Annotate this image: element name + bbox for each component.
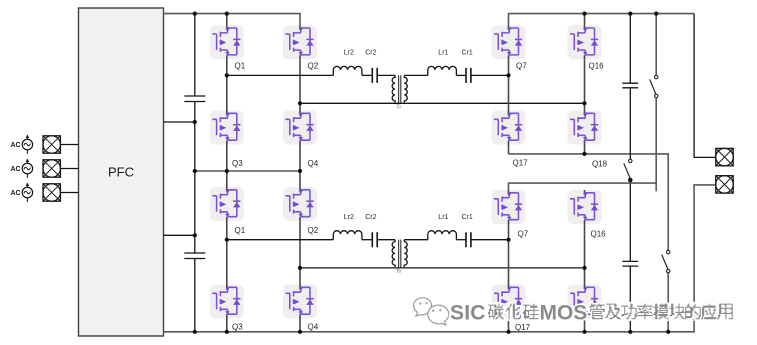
node bottom bus / Q17b (506, 330, 510, 334)
wire Q18b source stub (584, 319, 586, 332)
node Q16 source (582, 101, 586, 105)
wire Cr1 to Q7 node (471, 74, 509, 76)
svg-text:Lr1: Lr1 (438, 214, 448, 221)
transistor Q4 (283, 111, 317, 145)
svg-text:O: O (557, 302, 573, 325)
transistor Q7 (lower) (492, 190, 526, 224)
watermark logo (WeChat) (414, 298, 449, 325)
node wire1 / Q18 (582, 152, 586, 156)
node bottom bus / Q4b (298, 330, 302, 334)
wire Q3 source stub (226, 145, 228, 172)
wire Q1-Q3 column (226, 59, 228, 110)
transistor Q17 (lower) (492, 285, 526, 319)
inductor Lr1 (428, 66, 457, 75)
node Q2b source (298, 266, 302, 270)
node Q2 source (298, 101, 302, 105)
svg-text:Cr2: Cr2 (365, 50, 376, 57)
svg-text:AC: AC (11, 142, 21, 149)
node Q1 source (225, 73, 229, 77)
inductor Lr2 (lower) (333, 231, 362, 240)
wire switch S1 column (655, 14, 657, 192)
connector X2 (43, 160, 60, 177)
transistor Q18 (lower) (568, 285, 602, 319)
svg-text:Q1: Q1 (235, 226, 246, 235)
node Q16b source (582, 266, 586, 270)
wire tank top (Q1 node to Lr2) (227, 74, 333, 76)
wire Cr2b to transformer (377, 239, 395, 241)
wire transformer to Lr1 (404, 74, 428, 76)
node Q7b source (506, 238, 510, 242)
capacitor Cr1 (466, 68, 471, 83)
transistor Q1 (210, 25, 244, 59)
wire Q1b drain stub (226, 171, 228, 187)
svg-text:Q3: Q3 (232, 323, 243, 332)
node cap column / PFC tap upper (193, 120, 197, 124)
svg-text:Q17: Q17 (513, 159, 529, 168)
wire switch S3 column lower (667, 273, 669, 332)
wire output cap column (629, 14, 631, 332)
svg-text:Q2: Q2 (308, 62, 319, 71)
wire Q16-Q18 column (584, 59, 586, 110)
capacitor Cdc1 (184, 96, 205, 102)
svg-text:Cr1: Cr1 (462, 214, 473, 221)
node bottom bus / out cap (628, 330, 632, 334)
transistor Q2 (283, 25, 317, 59)
wire Q16b-Q18b column (584, 224, 586, 285)
transistor Q4 (lower) (283, 285, 317, 319)
watermark text halo (450, 302, 733, 325)
transistor Q7 (492, 25, 526, 59)
wire tank bottom lower (Q2b to Q16b) (300, 267, 585, 269)
wire tank bottom (Q2 node to Q16 node) (300, 102, 585, 104)
svg-text:C: C (470, 302, 485, 325)
svg-text:S: S (573, 302, 587, 325)
svg-text:AC: AC (11, 190, 21, 197)
wire Q17 source stub (508, 145, 510, 154)
wire Q1b-Q3b column (226, 221, 228, 285)
wire transformer to Lr1b (404, 239, 428, 241)
transistor Q2 (lower) (283, 187, 317, 221)
node top bus / Q16 (582, 12, 586, 16)
svg-text:Cr2: Cr2 (365, 214, 376, 221)
node Q1b source (225, 238, 229, 242)
transistor Q17 (492, 111, 526, 145)
wire tank top lower (Q1b to Lr2b) (227, 239, 333, 241)
connector X3 (43, 184, 60, 201)
svg-text:Q3: Q3 (232, 159, 243, 168)
wire Q18 source stub (584, 145, 586, 154)
svg-text:M: M (540, 302, 558, 325)
AC source V1 (22, 135, 32, 154)
switch S1 (650, 75, 658, 97)
svg-text:Q16: Q16 (589, 62, 605, 71)
wire bottom bus (164, 185, 716, 332)
wire Q4 source stub (299, 145, 301, 172)
svg-text:I: I (464, 302, 470, 325)
transistor Q16 (lower) (568, 190, 602, 224)
node mid bus / Q1 column (225, 169, 229, 173)
svg-text:Q7: Q7 (518, 230, 529, 239)
connector XOUT2 (716, 176, 733, 193)
svg-text:Q4: Q4 (308, 323, 319, 332)
node mid bus / cap column (193, 169, 197, 173)
watermark text (450, 302, 733, 325)
capacitor Cout1 (622, 83, 638, 88)
svg-text:Q18: Q18 (592, 160, 608, 169)
wire mid bus (primary link) (195, 170, 300, 172)
inductor Lr1 (lower) (428, 231, 457, 240)
svg-text:Q4: Q4 (308, 159, 319, 168)
wire Lr1 to Cr1 (456, 74, 466, 76)
transistor Q18 (568, 111, 602, 145)
svg-text:Lr2: Lr2 (344, 50, 354, 57)
node bottom bus / switch S3 (666, 330, 670, 334)
inductor Lr2 (333, 66, 362, 75)
watermark logo eyes (419, 302, 441, 312)
AC source V2 (22, 159, 32, 178)
transformer Tr (top) (392, 75, 407, 104)
wire1 secondary rectified bus (509, 154, 669, 250)
wire Q1 drain stub (226, 14, 228, 26)
transformer Tr (lower) (392, 240, 407, 269)
wire upper output to terminal (694, 14, 716, 158)
capacitor Cr2 (lower) (372, 232, 377, 247)
switch S3 (662, 250, 670, 272)
wire Q7-Q17 column (508, 59, 510, 110)
transistor Q3 (lower) (210, 285, 244, 319)
watermark logo (WeChat) halo (415, 297, 448, 322)
svg-text:AC: AC (11, 166, 21, 173)
wire PFC tap upper (164, 121, 195, 123)
transistor Q3 (210, 111, 244, 145)
wire Lr2 to Cr2 (362, 74, 372, 76)
transistor Q1 (lower) (210, 187, 244, 221)
wire2 lower secondary bus (509, 183, 657, 190)
switch S2 (series link mid) (624, 159, 632, 181)
svg-text:S: S (450, 302, 464, 325)
AC source V3 (22, 183, 32, 202)
svg-text:Q16: Q16 (591, 230, 607, 239)
wire top bus primary (164, 14, 301, 26)
wire Q7b-Q17b column (508, 224, 510, 285)
wire Q16 drain stub (584, 14, 586, 26)
node bottom bus / Q3b (225, 330, 229, 334)
wire Cr1b to Q7b node (471, 239, 509, 241)
capacitor Cdc2 (184, 253, 205, 259)
wire Lr2b to Cr2b (362, 239, 372, 241)
wire Q3b source stub (226, 319, 228, 332)
wire X3 to PFC (60, 192, 78, 194)
wire PFC tap lower (164, 234, 195, 236)
svg-text:Tr: Tr (396, 269, 401, 275)
node top bus / switch S1 (654, 12, 658, 16)
node cap column / PFC tap lower (193, 233, 197, 237)
node top bus / Q1 (225, 12, 229, 16)
capacitor Cout2 (622, 261, 638, 266)
node Q7 source (506, 73, 510, 77)
node bottom bus / cap column (193, 330, 197, 334)
PFC converter block (79, 8, 164, 336)
wire Lr1b to Cr1b (456, 239, 466, 241)
wire Q4b source stub (299, 319, 301, 332)
wire Q17b source stub (508, 319, 510, 332)
svg-text:Lr2: Lr2 (344, 214, 354, 221)
wire Cr2 to transformer (377, 74, 395, 76)
wire X2 to PFC (60, 168, 78, 170)
capacitor Cr1 (lower) (466, 232, 471, 247)
svg-text:Lr1: Lr1 (438, 50, 448, 57)
svg-text:Q2: Q2 (308, 226, 319, 235)
svg-text:Cr1: Cr1 (462, 50, 473, 57)
svg-text:Q17: Q17 (515, 323, 531, 332)
node top bus / out cap (628, 12, 632, 16)
connector X1 (43, 136, 60, 153)
wire dc-link capacitor column (194, 14, 196, 332)
wire top bus secondary (509, 14, 695, 26)
node top bus / cap column (193, 12, 197, 16)
transistor Q16 (568, 25, 602, 59)
wire Q2b drain stub (299, 171, 301, 187)
connector XOUT1 (716, 148, 733, 165)
svg-text:PFC: PFC (108, 165, 134, 180)
node mid bus / Q2 column (298, 169, 302, 173)
wire Q2-Q4 column (299, 59, 301, 110)
wire Q2b-Q4b column (299, 221, 301, 285)
capacitor Cr2 (372, 68, 377, 83)
wire X1 to PFC (60, 144, 78, 146)
svg-text:Q7: Q7 (516, 62, 527, 71)
svg-text:Tr: Tr (396, 105, 401, 111)
svg-text:Q1: Q1 (235, 62, 246, 71)
node bottom bus / Q18b (582, 330, 586, 334)
junction S2 blade to wire2 (628, 178, 632, 182)
